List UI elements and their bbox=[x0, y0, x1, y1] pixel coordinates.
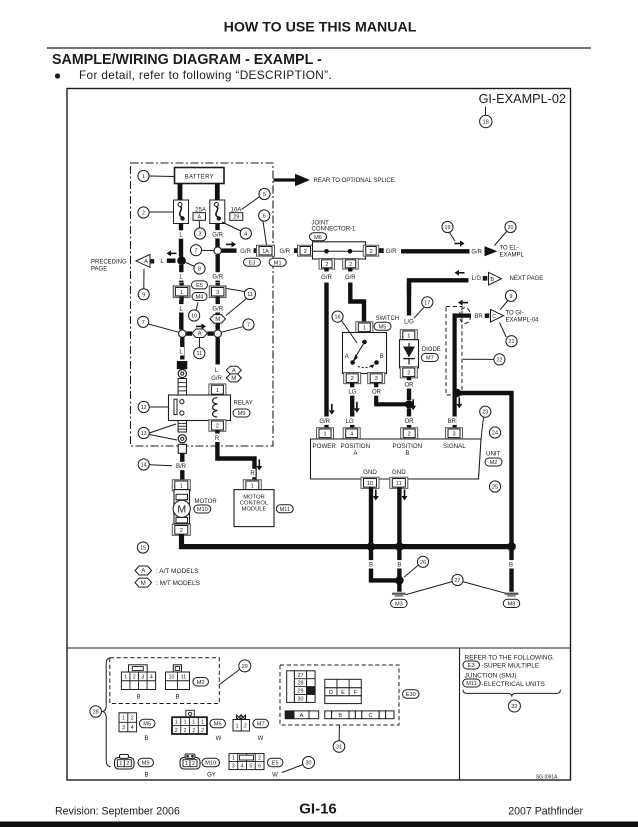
svg-text:BR: BR bbox=[448, 419, 457, 425]
svg-text:E5: E5 bbox=[196, 283, 203, 289]
svg-text:GY: GY bbox=[207, 773, 216, 779]
svg-text:E: E bbox=[341, 690, 345, 696]
svg-text:B: B bbox=[490, 277, 494, 283]
svg-text:2: 2 bbox=[142, 211, 145, 217]
svg-text:19: 19 bbox=[445, 225, 451, 231]
svg-text:M5: M5 bbox=[379, 324, 387, 330]
svg-text:M6: M6 bbox=[214, 722, 222, 728]
svg-text:2: 2 bbox=[180, 528, 183, 534]
svg-text:2: 2 bbox=[369, 249, 372, 255]
svg-text:10: 10 bbox=[169, 674, 175, 680]
svg-text:2: 2 bbox=[192, 728, 195, 734]
svg-text:1: 1 bbox=[216, 388, 219, 394]
svg-text:M5: M5 bbox=[143, 722, 151, 728]
svg-text:31: 31 bbox=[336, 745, 342, 751]
svg-text:1: 1 bbox=[124, 674, 127, 680]
svg-text:18: 18 bbox=[483, 120, 489, 126]
svg-text:3: 3 bbox=[452, 431, 455, 437]
svg-text:B: B bbox=[397, 563, 401, 569]
svg-text:23: 23 bbox=[482, 410, 488, 416]
svg-text:1: 1 bbox=[184, 719, 187, 725]
svg-text:B/R: B/R bbox=[176, 464, 187, 470]
svg-text:HOW TO USE THIS MANUAL: HOW TO USE THIS MANUAL bbox=[224, 20, 417, 36]
svg-text:1A: 1A bbox=[262, 249, 269, 255]
svg-text:M3: M3 bbox=[395, 602, 403, 608]
svg-text:26: 26 bbox=[420, 560, 426, 566]
svg-text:2: 2 bbox=[408, 431, 411, 437]
svg-text:JOINT: JOINT bbox=[312, 221, 330, 227]
svg-text:2: 2 bbox=[325, 262, 328, 268]
svg-text:G/R: G/R bbox=[471, 249, 482, 255]
svg-text:11: 11 bbox=[247, 292, 253, 298]
svg-text:CONNECTOR-1: CONNECTOR-1 bbox=[312, 227, 357, 233]
svg-text:M4: M4 bbox=[196, 295, 204, 301]
svg-text:2: 2 bbox=[216, 424, 219, 430]
svg-text:2: 2 bbox=[351, 376, 354, 382]
svg-text:M11: M11 bbox=[466, 681, 476, 687]
svg-text:3: 3 bbox=[216, 290, 219, 296]
svg-text:2: 2 bbox=[201, 728, 204, 734]
svg-text:: M/T MODELS: : M/T MODELS bbox=[156, 580, 201, 587]
svg-text:A: A bbox=[197, 215, 201, 221]
svg-text:13: 13 bbox=[141, 431, 147, 437]
svg-text:4: 4 bbox=[244, 232, 247, 238]
svg-text:11: 11 bbox=[396, 481, 402, 487]
svg-text:27: 27 bbox=[455, 578, 461, 584]
svg-text:22: 22 bbox=[496, 357, 502, 363]
svg-text:14: 14 bbox=[141, 463, 147, 469]
svg-text:2: 2 bbox=[192, 761, 195, 767]
svg-text:7: 7 bbox=[247, 323, 250, 329]
svg-text:A: A bbox=[198, 331, 202, 337]
svg-text:GND: GND bbox=[363, 469, 377, 476]
svg-text:B: B bbox=[144, 736, 148, 742]
svg-text:EXAMPL-04: EXAMPL-04 bbox=[506, 317, 540, 323]
svg-text:MOTOR: MOTOR bbox=[195, 499, 218, 505]
svg-text:G/R: G/R bbox=[212, 233, 223, 239]
svg-text:REFER TO THE FOLLOWING.: REFER TO THE FOLLOWING. bbox=[465, 654, 555, 661]
svg-text:2007 Pathfinder: 2007 Pathfinder bbox=[508, 806, 583, 818]
svg-text:3: 3 bbox=[375, 376, 378, 382]
svg-text:3: 3 bbox=[141, 674, 144, 680]
svg-text:28: 28 bbox=[93, 710, 99, 716]
svg-text:2: 2 bbox=[244, 723, 247, 729]
svg-text:2: 2 bbox=[131, 716, 134, 722]
svg-text:NEXT PAGE: NEXT PAGE bbox=[510, 276, 544, 282]
svg-text:17: 17 bbox=[424, 300, 430, 306]
svg-text:G/R: G/R bbox=[319, 419, 330, 425]
svg-text:7: 7 bbox=[195, 248, 198, 254]
svg-text:1: 1 bbox=[363, 325, 366, 331]
svg-text:1: 1 bbox=[142, 174, 145, 180]
svg-text:BATTERY: BATTERY bbox=[185, 175, 214, 181]
svg-text:9: 9 bbox=[142, 292, 145, 298]
svg-text:M11: M11 bbox=[280, 507, 290, 513]
svg-text:PRECEDING: PRECEDING bbox=[91, 259, 127, 265]
svg-text:28: 28 bbox=[298, 681, 304, 687]
svg-text:M: M bbox=[141, 581, 146, 587]
svg-text:5: 5 bbox=[249, 764, 252, 770]
svg-text:For detail, refer to following: For detail, refer to following “DESCRIPT… bbox=[79, 68, 332, 82]
svg-text:M7: M7 bbox=[257, 722, 265, 728]
svg-text:M8: M8 bbox=[508, 602, 516, 608]
svg-text:1: 1 bbox=[175, 719, 178, 725]
svg-text:M: M bbox=[215, 317, 220, 323]
svg-text:12: 12 bbox=[141, 405, 147, 411]
svg-text:JUNCTION (SMJ): JUNCTION (SMJ) bbox=[465, 673, 517, 680]
svg-text:B: B bbox=[369, 563, 373, 569]
svg-text:2: 2 bbox=[304, 249, 307, 255]
svg-text:M7: M7 bbox=[426, 356, 434, 362]
svg-text:5: 5 bbox=[263, 192, 266, 198]
svg-text:2: 2 bbox=[175, 728, 178, 734]
svg-text:GI-16: GI-16 bbox=[299, 801, 337, 818]
svg-text:M2: M2 bbox=[490, 460, 498, 466]
svg-text:R: R bbox=[215, 436, 220, 442]
svg-text:4: 4 bbox=[241, 764, 244, 770]
svg-text:A: A bbox=[345, 354, 349, 360]
svg-text:REAR TO OPTIONAL SPLICE.: REAR TO OPTIONAL SPLICE. bbox=[314, 178, 397, 184]
svg-text:2: 2 bbox=[349, 262, 352, 268]
svg-text:3: 3 bbox=[199, 232, 202, 238]
svg-text:6: 6 bbox=[263, 214, 266, 220]
svg-text:M2: M2 bbox=[197, 680, 205, 686]
svg-text:GND: GND bbox=[392, 469, 406, 476]
svg-text:C: C bbox=[492, 314, 496, 320]
svg-text:M9: M9 bbox=[142, 761, 150, 767]
svg-text:F: F bbox=[353, 690, 357, 696]
svg-text:1: 1 bbox=[180, 290, 183, 296]
svg-text:DIODE: DIODE bbox=[422, 347, 441, 353]
svg-text:M10: M10 bbox=[205, 761, 216, 767]
svg-text:OR: OR bbox=[405, 419, 415, 425]
svg-text:W: W bbox=[216, 736, 222, 742]
svg-text:GI-EXAMPL-02: GI-EXAMPL-02 bbox=[479, 92, 566, 106]
svg-text:PAGE: PAGE bbox=[91, 266, 107, 272]
svg-text:-ELECTRICAL UNITS: -ELECTRICAL UNITS bbox=[482, 681, 546, 688]
svg-text:G/R: G/R bbox=[212, 307, 223, 313]
svg-text:M10: M10 bbox=[197, 507, 208, 513]
svg-text:B: B bbox=[175, 695, 179, 701]
svg-text:10: 10 bbox=[367, 481, 373, 487]
svg-text:G/R: G/R bbox=[345, 275, 356, 281]
svg-text:2: 2 bbox=[258, 756, 261, 762]
svg-text:G/R: G/R bbox=[240, 249, 251, 255]
svg-text:SAMPLE/WIRING DIAGRAM - EXAMPL: SAMPLE/WIRING DIAGRAM - EXAMPL - bbox=[52, 52, 322, 68]
svg-text:B: B bbox=[137, 695, 141, 701]
svg-text:2: 2 bbox=[126, 761, 129, 767]
svg-text:M1: M1 bbox=[274, 260, 282, 266]
svg-text:9: 9 bbox=[510, 294, 513, 300]
svg-text:1: 1 bbox=[251, 483, 254, 489]
svg-text:W: W bbox=[258, 736, 264, 742]
svg-text:A: A bbox=[300, 713, 304, 719]
svg-text:6: 6 bbox=[258, 764, 261, 770]
svg-text:10: 10 bbox=[191, 314, 197, 320]
svg-text:M: M bbox=[231, 376, 236, 382]
svg-text:1: 1 bbox=[201, 719, 204, 725]
svg-text:E3: E3 bbox=[468, 663, 475, 669]
svg-text:B: B bbox=[509, 563, 513, 569]
svg-text:G/R: G/R bbox=[386, 249, 397, 255]
svg-text:L/G: L/G bbox=[404, 320, 414, 326]
svg-text:G/R: G/R bbox=[279, 249, 290, 255]
svg-text:4: 4 bbox=[350, 431, 353, 437]
svg-text:OR: OR bbox=[405, 383, 415, 389]
svg-text:8: 8 bbox=[198, 267, 201, 273]
svg-text:C: C bbox=[368, 713, 372, 719]
svg-text:EXAMPL: EXAMPL bbox=[500, 252, 525, 258]
svg-text:1: 1 bbox=[185, 761, 188, 767]
svg-text:G/R: G/R bbox=[321, 275, 332, 281]
svg-text:1: 1 bbox=[407, 333, 410, 339]
svg-text:BR: BR bbox=[474, 314, 483, 320]
svg-text:2: 2 bbox=[184, 728, 187, 734]
svg-text:30: 30 bbox=[306, 761, 312, 767]
svg-text:29: 29 bbox=[242, 664, 248, 670]
svg-text:25: 25 bbox=[492, 485, 498, 491]
svg-text:2: 2 bbox=[407, 370, 410, 376]
svg-text:29: 29 bbox=[298, 689, 304, 695]
svg-text:MOTOR: MOTOR bbox=[243, 494, 264, 500]
svg-text:M: M bbox=[177, 504, 186, 516]
svg-text:-SUPER MULTIPLE: -SUPER MULTIPLE bbox=[482, 663, 540, 670]
svg-text:4: 4 bbox=[150, 674, 153, 680]
svg-text:29: 29 bbox=[233, 215, 239, 221]
svg-text:15: 15 bbox=[140, 546, 146, 552]
svg-text:B: B bbox=[144, 773, 148, 779]
svg-text:D: D bbox=[329, 690, 333, 696]
svg-text:4: 4 bbox=[131, 725, 134, 731]
svg-text:B: B bbox=[338, 713, 342, 719]
svg-text:11: 11 bbox=[196, 351, 202, 357]
svg-text:L/G: L/G bbox=[471, 276, 481, 282]
svg-text:LG: LG bbox=[346, 419, 354, 425]
svg-text:CONTROL: CONTROL bbox=[240, 501, 269, 507]
svg-text:32: 32 bbox=[511, 704, 517, 710]
svg-text:21: 21 bbox=[509, 339, 515, 345]
svg-text:3: 3 bbox=[232, 764, 235, 770]
svg-text:G/R: G/R bbox=[211, 376, 222, 382]
svg-text:27: 27 bbox=[298, 673, 304, 679]
svg-text:MODULE: MODULE bbox=[242, 507, 267, 513]
svg-text:Revision: September 2006: Revision: September 2006 bbox=[55, 806, 180, 818]
svg-text:E5: E5 bbox=[272, 761, 279, 767]
svg-text:TO EL-: TO EL- bbox=[500, 245, 519, 251]
svg-text:1: 1 bbox=[122, 716, 125, 722]
svg-text:11: 11 bbox=[181, 674, 186, 680]
svg-text:1: 1 bbox=[232, 756, 235, 762]
svg-text:1: 1 bbox=[119, 761, 122, 767]
svg-text:R: R bbox=[250, 471, 255, 477]
svg-text:SWITCH: SWITCH bbox=[376, 316, 400, 322]
svg-text:OR: OR bbox=[372, 390, 382, 396]
svg-text:TO GI-: TO GI- bbox=[506, 310, 524, 316]
svg-text:1: 1 bbox=[192, 719, 195, 725]
svg-text:30: 30 bbox=[298, 696, 304, 702]
svg-text:16: 16 bbox=[335, 315, 341, 321]
svg-text:1: 1 bbox=[323, 431, 326, 437]
svg-text:B: B bbox=[380, 354, 384, 360]
svg-text:A: A bbox=[144, 259, 148, 265]
svg-text:M9: M9 bbox=[238, 411, 246, 417]
svg-text:POWER: POWER bbox=[313, 443, 337, 450]
svg-text:B: B bbox=[405, 450, 409, 457]
svg-text:SIGNAL: SIGNAL bbox=[443, 443, 466, 450]
svg-text:W: W bbox=[272, 773, 278, 779]
svg-text:RELAY: RELAY bbox=[234, 401, 253, 407]
svg-text:3: 3 bbox=[122, 725, 125, 731]
svg-text:UNIT: UNIT bbox=[486, 451, 501, 458]
svg-text:SG I091A: SG I091A bbox=[536, 775, 558, 781]
svg-text:G/R: G/R bbox=[212, 275, 223, 281]
svg-text:E3: E3 bbox=[249, 260, 256, 266]
svg-text:1: 1 bbox=[180, 483, 183, 489]
svg-text:LG: LG bbox=[348, 390, 356, 396]
svg-text:: A/T MODELS: : A/T MODELS bbox=[156, 568, 199, 575]
svg-text:2: 2 bbox=[133, 674, 136, 680]
svg-text:20: 20 bbox=[508, 225, 514, 231]
svg-text:24: 24 bbox=[492, 431, 498, 437]
svg-text:M6: M6 bbox=[314, 235, 322, 241]
svg-text:7: 7 bbox=[142, 320, 145, 326]
svg-text:1: 1 bbox=[236, 723, 239, 729]
svg-text:E30: E30 bbox=[406, 692, 416, 698]
svg-text:A: A bbox=[141, 569, 145, 575]
